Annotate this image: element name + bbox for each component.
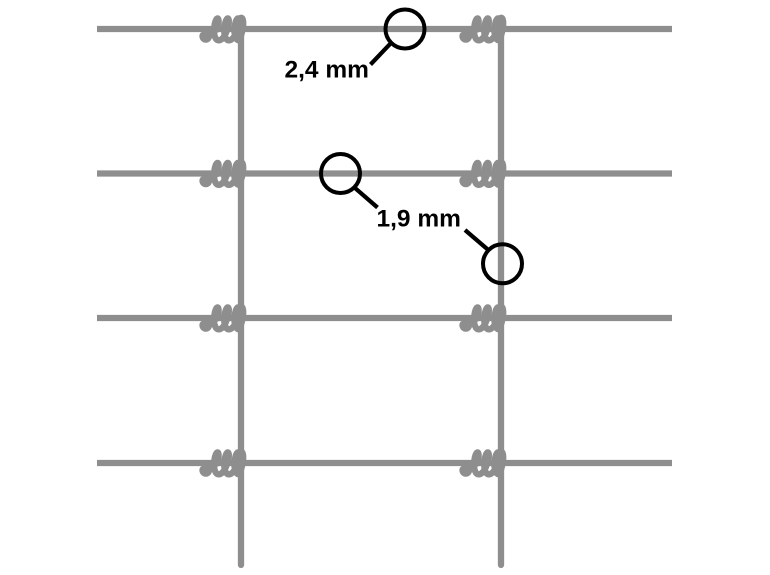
- callout circle on top wire (2,4 mm): [386, 10, 425, 49]
- vertical stay wire V1: [238, 29, 244, 565]
- horizontal line wire W1: [97, 26, 672, 32]
- leader line from 1,9 mm label to stay-wire circle: [465, 230, 488, 250]
- callout circle on vertical stay wire (1,9 mm): [483, 244, 522, 283]
- leader line from middle-wire circle to 1,9 mm label: [355, 188, 378, 208]
- wire knot at W3/V1: [203, 307, 244, 330]
- wire knot at W1/V2: [463, 18, 504, 41]
- horizontal line wire W3: [97, 315, 672, 321]
- svg-text:1,9 mm: 1,9 mm: [377, 206, 461, 233]
- wire knot at W2/V1: [203, 162, 244, 185]
- horizontal line wire W4: [97, 460, 672, 466]
- leader line to 2,4 mm label: [371, 43, 391, 64]
- vertical stay wire V2: [498, 29, 504, 565]
- wire knot at W4/V1: [203, 452, 244, 475]
- wire knot at W3/V2: [463, 307, 504, 330]
- callout circle on middle wire (1,9 mm): [321, 154, 360, 193]
- wire knot at W4/V2: [463, 452, 504, 475]
- horizontal line wire W2: [97, 170, 672, 176]
- wire knot at W2/V2: [463, 162, 504, 185]
- wire knot at W1/V1: [203, 18, 244, 41]
- svg-text:2,4 mm: 2,4 mm: [285, 57, 369, 84]
